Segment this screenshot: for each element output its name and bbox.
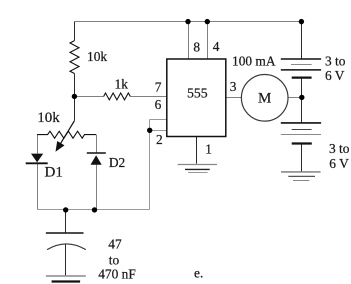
svg-text:3: 3 bbox=[230, 79, 237, 94]
svg-text:6: 6 bbox=[155, 97, 162, 112]
svg-text:1: 1 bbox=[205, 142, 212, 157]
svg-text:2: 2 bbox=[156, 132, 163, 147]
svg-text:1k: 1k bbox=[115, 77, 129, 92]
svg-text:10k: 10k bbox=[87, 49, 107, 64]
svg-text:3 to: 3 to bbox=[329, 141, 350, 156]
svg-text:M: M bbox=[258, 91, 271, 107]
svg-text:6 V: 6 V bbox=[329, 156, 349, 171]
svg-text:4: 4 bbox=[213, 39, 220, 54]
svg-text:100 mA: 100 mA bbox=[232, 54, 276, 69]
svg-text:D2: D2 bbox=[109, 155, 125, 170]
svg-text:8: 8 bbox=[193, 40, 200, 55]
svg-text:47: 47 bbox=[108, 237, 122, 252]
svg-text:10k: 10k bbox=[37, 110, 60, 126]
svg-text:7: 7 bbox=[155, 79, 162, 94]
svg-text:e.: e. bbox=[194, 266, 203, 281]
svg-text:D1: D1 bbox=[45, 165, 63, 181]
svg-text:3 to: 3 to bbox=[325, 54, 346, 69]
svg-text:555: 555 bbox=[187, 86, 208, 101]
svg-text:470 nF: 470 nF bbox=[98, 266, 136, 281]
svg-text:6 V: 6 V bbox=[325, 68, 345, 83]
svg-text:to: to bbox=[109, 252, 120, 267]
